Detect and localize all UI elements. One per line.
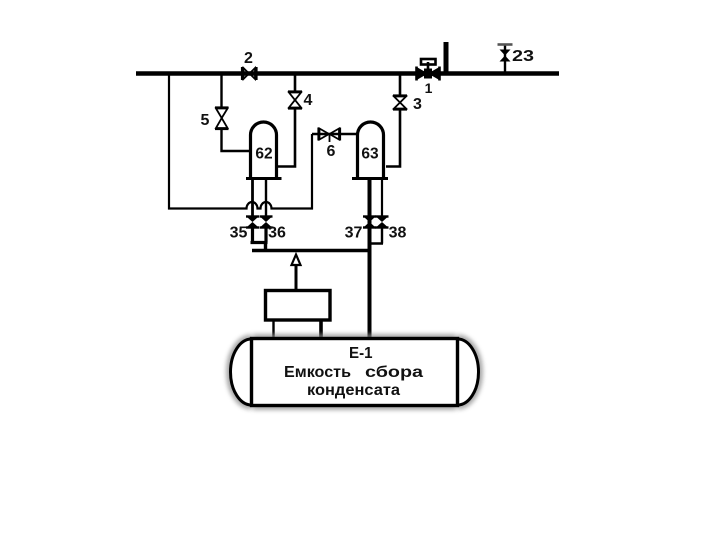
vessel E-1: [231, 339, 479, 406]
svg-text:Емкость: Емкость: [284, 364, 351, 381]
wire box left nozzle: [272, 320, 274, 339]
valve 3: [393, 96, 407, 110]
valve 23: [498, 45, 513, 62]
svg-text:63: 63: [361, 146, 379, 163]
svg-text:37: 37: [345, 225, 363, 242]
wire vessel 63 right leg: [381, 179, 383, 217]
svg-text:23: 23: [512, 48, 534, 65]
wire bypass line with hops over vessel legs: [168, 202, 313, 209]
wire drain legs below valves 35 36: [251, 228, 268, 243]
valve 35: [246, 217, 259, 228]
instrument box on E-1: [266, 291, 331, 321]
wire drop to valve 3 and vessel 63: [386, 75, 400, 167]
valve 2: [242, 67, 257, 80]
svg-text:2: 2: [244, 50, 253, 67]
wire box right nozzle: [319, 320, 323, 339]
wire riser stub above header: [444, 42, 449, 75]
flow arrow to drain header: [292, 255, 301, 291]
vessel E-1 shadow: [231, 339, 479, 406]
svg-text:Е-1: Е-1: [349, 345, 373, 362]
wire vessel 62 left leg: [251, 179, 254, 217]
wire riser to valve 6: [311, 134, 313, 210]
valve 36: [260, 217, 273, 228]
wire drop to valve 5 then to vessel 62 left side: [222, 75, 252, 151]
svg-text:4: 4: [304, 92, 313, 109]
svg-text:3: 3: [413, 96, 422, 113]
svg-text:36: 36: [268, 225, 286, 242]
wire drop to valve 4 and vessel 62 right side: [278, 75, 295, 167]
svg-text:6: 6: [327, 143, 336, 160]
vessel 62 (separator pot): [246, 122, 282, 178]
wire main header pipe: [136, 71, 559, 75]
vessel 63 (separator pot): [352, 122, 388, 178]
valve 4: [288, 92, 302, 109]
svg-text:сбора: сбора: [365, 364, 423, 381]
wire left drop from header: [168, 73, 170, 210]
valve 38: [376, 217, 389, 228]
valve 5: [215, 108, 229, 130]
valve 6: [319, 128, 341, 143]
svg-text:1: 1: [425, 80, 433, 96]
wire valve 38 outlet step: [370, 228, 384, 244]
valve 37: [363, 217, 376, 228]
svg-text:35: 35: [230, 225, 248, 242]
svg-text:38: 38: [389, 225, 407, 242]
svg-text:5: 5: [201, 112, 210, 129]
wire valve 23 stub: [504, 44, 506, 73]
svg-text:62: 62: [255, 146, 272, 163]
wire vessel 62 right leg: [265, 179, 267, 217]
svg-text:конденсата: конденсата: [307, 382, 400, 399]
wire vessel 63 left leg (main drop to E-1): [368, 179, 372, 339]
wire valve 6 line into vessel 63: [312, 133, 357, 135]
wire drain header to main drop: [252, 243, 370, 251]
valve 1 with handwheel: [417, 59, 440, 81]
